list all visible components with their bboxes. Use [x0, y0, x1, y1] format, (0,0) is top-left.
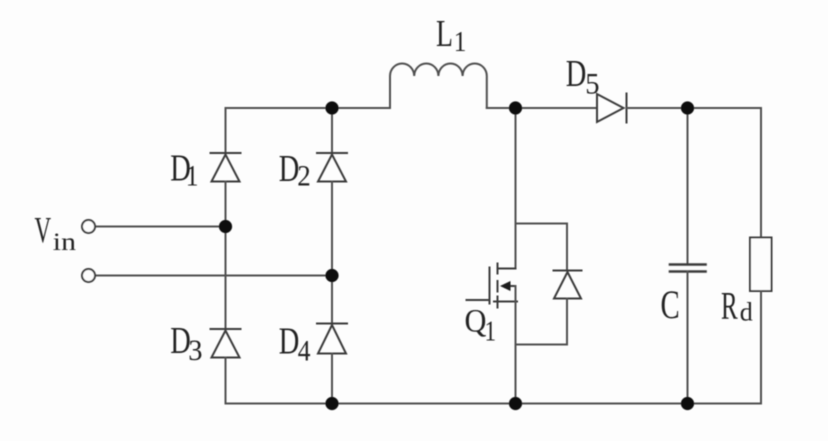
node bottom of Q1 junction	[509, 397, 522, 410]
wire node Vin+ down to D3	[225, 227, 227, 330]
wire Vin- lead	[95, 275, 332, 277]
diode body cathode bar	[554, 270, 582, 272]
label D1	[170, 148, 198, 193]
svg-text:d: d	[740, 298, 753, 327]
svg-text:V: V	[35, 210, 52, 251]
resistor Rd body	[750, 238, 772, 292]
diode D1 triangle	[212, 155, 240, 182]
diode body triangle	[554, 272, 581, 299]
svg-text:1: 1	[485, 315, 497, 347]
wire D2 to node Vin-	[331, 182, 333, 276]
wire Rd to bottom rail	[760, 291, 762, 404]
label D3	[170, 320, 202, 367]
svg-text:1: 1	[454, 26, 467, 58]
svg-text:2: 2	[297, 160, 310, 193]
wire capacitor bottom	[687, 272, 689, 404]
label D5	[566, 53, 600, 100]
diode D3 cathode bar	[211, 328, 241, 330]
diode D1 cathode bar	[211, 152, 241, 154]
node top of Q1 junction	[509, 101, 522, 114]
mosfet Q1 channel source segment	[497, 297, 499, 308]
node top of D2 junction	[325, 101, 338, 114]
node Vin+ junction	[219, 220, 232, 233]
wire right side down to Rd	[760, 108, 762, 238]
svg-text:Q: Q	[465, 302, 487, 338]
node bottom of C junction	[681, 397, 694, 410]
svg-text:1: 1	[186, 160, 199, 193]
wire Q1 drain vertical	[515, 108, 517, 269]
label Vin	[35, 210, 77, 255]
label Rd	[721, 285, 753, 328]
diode D2 cathode bar	[317, 152, 347, 154]
mosfet Q1 body lead	[503, 285, 516, 287]
wire top rail left segment	[226, 107, 333, 109]
wire body diode bottom branch	[516, 344, 568, 346]
inductor L1	[390, 63, 487, 108]
svg-text:R: R	[721, 285, 738, 328]
wire D3 to bottom rail	[225, 358, 227, 404]
diode D4 triangle	[318, 325, 346, 354]
mosfet Q1 channel drain segment	[497, 264, 499, 274]
wire body diode lower vertical	[566, 299, 568, 345]
wire D4 to bottom rail	[331, 354, 333, 404]
capacitor C top plate	[670, 263, 706, 266]
mosfet Q1 body arrow	[500, 281, 511, 291]
label D2	[279, 148, 311, 193]
mosfet Q1 channel body segment	[497, 281, 499, 292]
mosfet Q1 drain lead	[498, 268, 516, 270]
svg-text:in: in	[53, 228, 76, 255]
diode D3 triangle	[212, 331, 240, 358]
diode D5 cathode bar	[626, 94, 628, 123]
node bottom of D4 junction	[325, 397, 338, 410]
wire second branch top (node down to D2)	[331, 108, 333, 153]
svg-text:3: 3	[188, 334, 202, 367]
terminal Vin+	[82, 220, 95, 233]
wire Vin+ lead	[95, 226, 226, 228]
label L1	[436, 13, 466, 57]
wire D1 to node Vin+	[225, 182, 227, 227]
mosfet Q1 source lead	[494, 301, 517, 303]
wire node C to top-right corner	[688, 107, 762, 109]
svg-text:5: 5	[585, 68, 599, 101]
wire branch to body diode top	[516, 223, 568, 225]
mosfet Q1 gate lead	[467, 299, 490, 301]
node Vin- junction	[325, 269, 338, 282]
svg-text:C: C	[661, 282, 680, 327]
wire Q1 source vertical	[515, 286, 517, 404]
node top of C junction	[681, 101, 694, 114]
wire inductor to D5	[487, 107, 597, 109]
capacitor C bottom plate	[670, 270, 706, 273]
svg-text:L: L	[436, 13, 453, 55]
wire body diode upper vertical	[566, 224, 568, 271]
mosfet Q1 gate bar	[489, 268, 491, 304]
diode D2 triangle	[318, 155, 346, 182]
wire D5 to node C	[627, 107, 688, 109]
diode D4 cathode bar	[317, 323, 347, 325]
wire node Vin- down to D4	[331, 276, 333, 324]
diode D5 triangle	[597, 94, 624, 122]
wire left branch top (top rail corner down to D1)	[225, 108, 227, 153]
wire bottom rail	[226, 403, 762, 405]
wire capacitor top	[687, 108, 689, 265]
terminal Vin-	[82, 269, 95, 282]
svg-text:4: 4	[298, 334, 311, 367]
wire top rail to inductor	[332, 107, 390, 109]
svg-text:D: D	[279, 321, 300, 363]
svg-text:D: D	[566, 53, 587, 95]
label D4	[279, 321, 311, 368]
svg-text:D: D	[279, 148, 300, 190]
label Q1	[465, 302, 497, 347]
